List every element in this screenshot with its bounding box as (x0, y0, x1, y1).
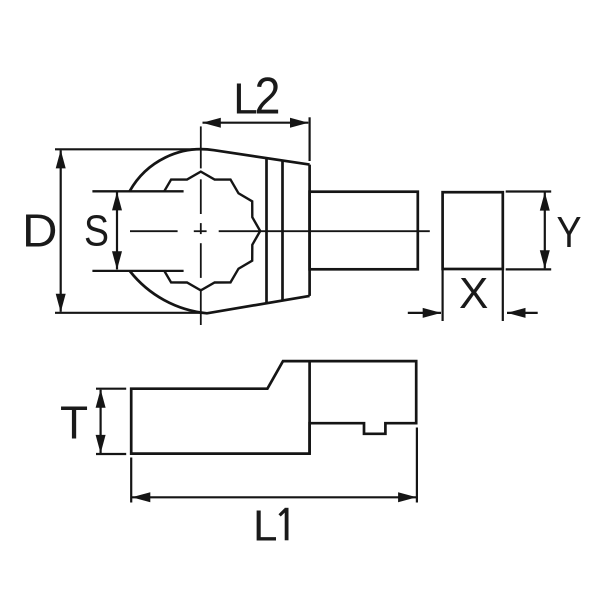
square drive Y x X (443, 192, 503, 269)
svg-text:L: L (253, 502, 277, 551)
X dimension line right part (507, 312, 538, 314)
digit 1 of label L1 (280, 508, 287, 541)
L2 extension line right (309, 117, 311, 161)
ring outer arc lower (130, 271, 310, 313)
S arrowhead up (112, 192, 122, 211)
L1 extension line left (130, 458, 132, 503)
X extension line right (502, 270, 504, 322)
svg-text:S: S (84, 207, 109, 256)
D arrowhead up (56, 150, 66, 169)
svg-text:2: 2 (255, 68, 281, 126)
side view outline (131, 361, 416, 454)
D dimension line (60, 150, 62, 311)
T extension line bottom (96, 453, 126, 455)
centerline vertical (200, 126, 202, 168)
Y extension line top (506, 190, 552, 192)
X arrowhead right (left side) (423, 308, 442, 318)
shank rectangle (310, 192, 418, 270)
svg-text:Y: Y (557, 208, 582, 257)
neck vertical line 1 (265, 158, 268, 303)
svg-text:X: X (459, 269, 488, 318)
S dimension line (116, 192, 118, 269)
D arrowhead down (56, 294, 66, 313)
T arrowhead down (96, 435, 106, 454)
L2 arrowhead left (202, 118, 221, 128)
S extension line bottom (92, 270, 183, 272)
L1 extension line right (416, 428, 418, 503)
L2 dimension line (203, 122, 309, 124)
svg-text:D: D (22, 204, 58, 256)
side view divider line (308, 361, 311, 454)
svg-text:T: T (60, 397, 88, 449)
X arrowhead left (right side) (507, 308, 526, 318)
ring outer arc upper (top view head) (130, 149, 310, 191)
T arrowhead up (96, 389, 106, 408)
Y arrowhead up (540, 192, 550, 211)
L1 arrowhead right (398, 492, 417, 502)
centerline horizontal (130, 230, 178, 232)
12-point ring profile (164, 172, 260, 291)
Y dimension line (544, 193, 546, 269)
S extension line top (92, 190, 183, 192)
neck vertical line 2 (281, 161, 284, 301)
X dimension line left part (408, 312, 441, 314)
Y extension line bottom (506, 268, 552, 270)
L1 arrowhead left (132, 492, 151, 502)
Y arrowhead down (540, 250, 550, 268)
D extension line top (55, 148, 201, 150)
L1 dimension line (132, 496, 416, 498)
T extension line top (96, 388, 126, 390)
D extension line bottom (55, 312, 200, 314)
S arrowhead down (112, 251, 122, 269)
neck right edge (308, 165, 311, 296)
X extension line left (442, 270, 444, 322)
T dimension line (99, 390, 101, 453)
L2 arrowhead right (290, 118, 309, 128)
